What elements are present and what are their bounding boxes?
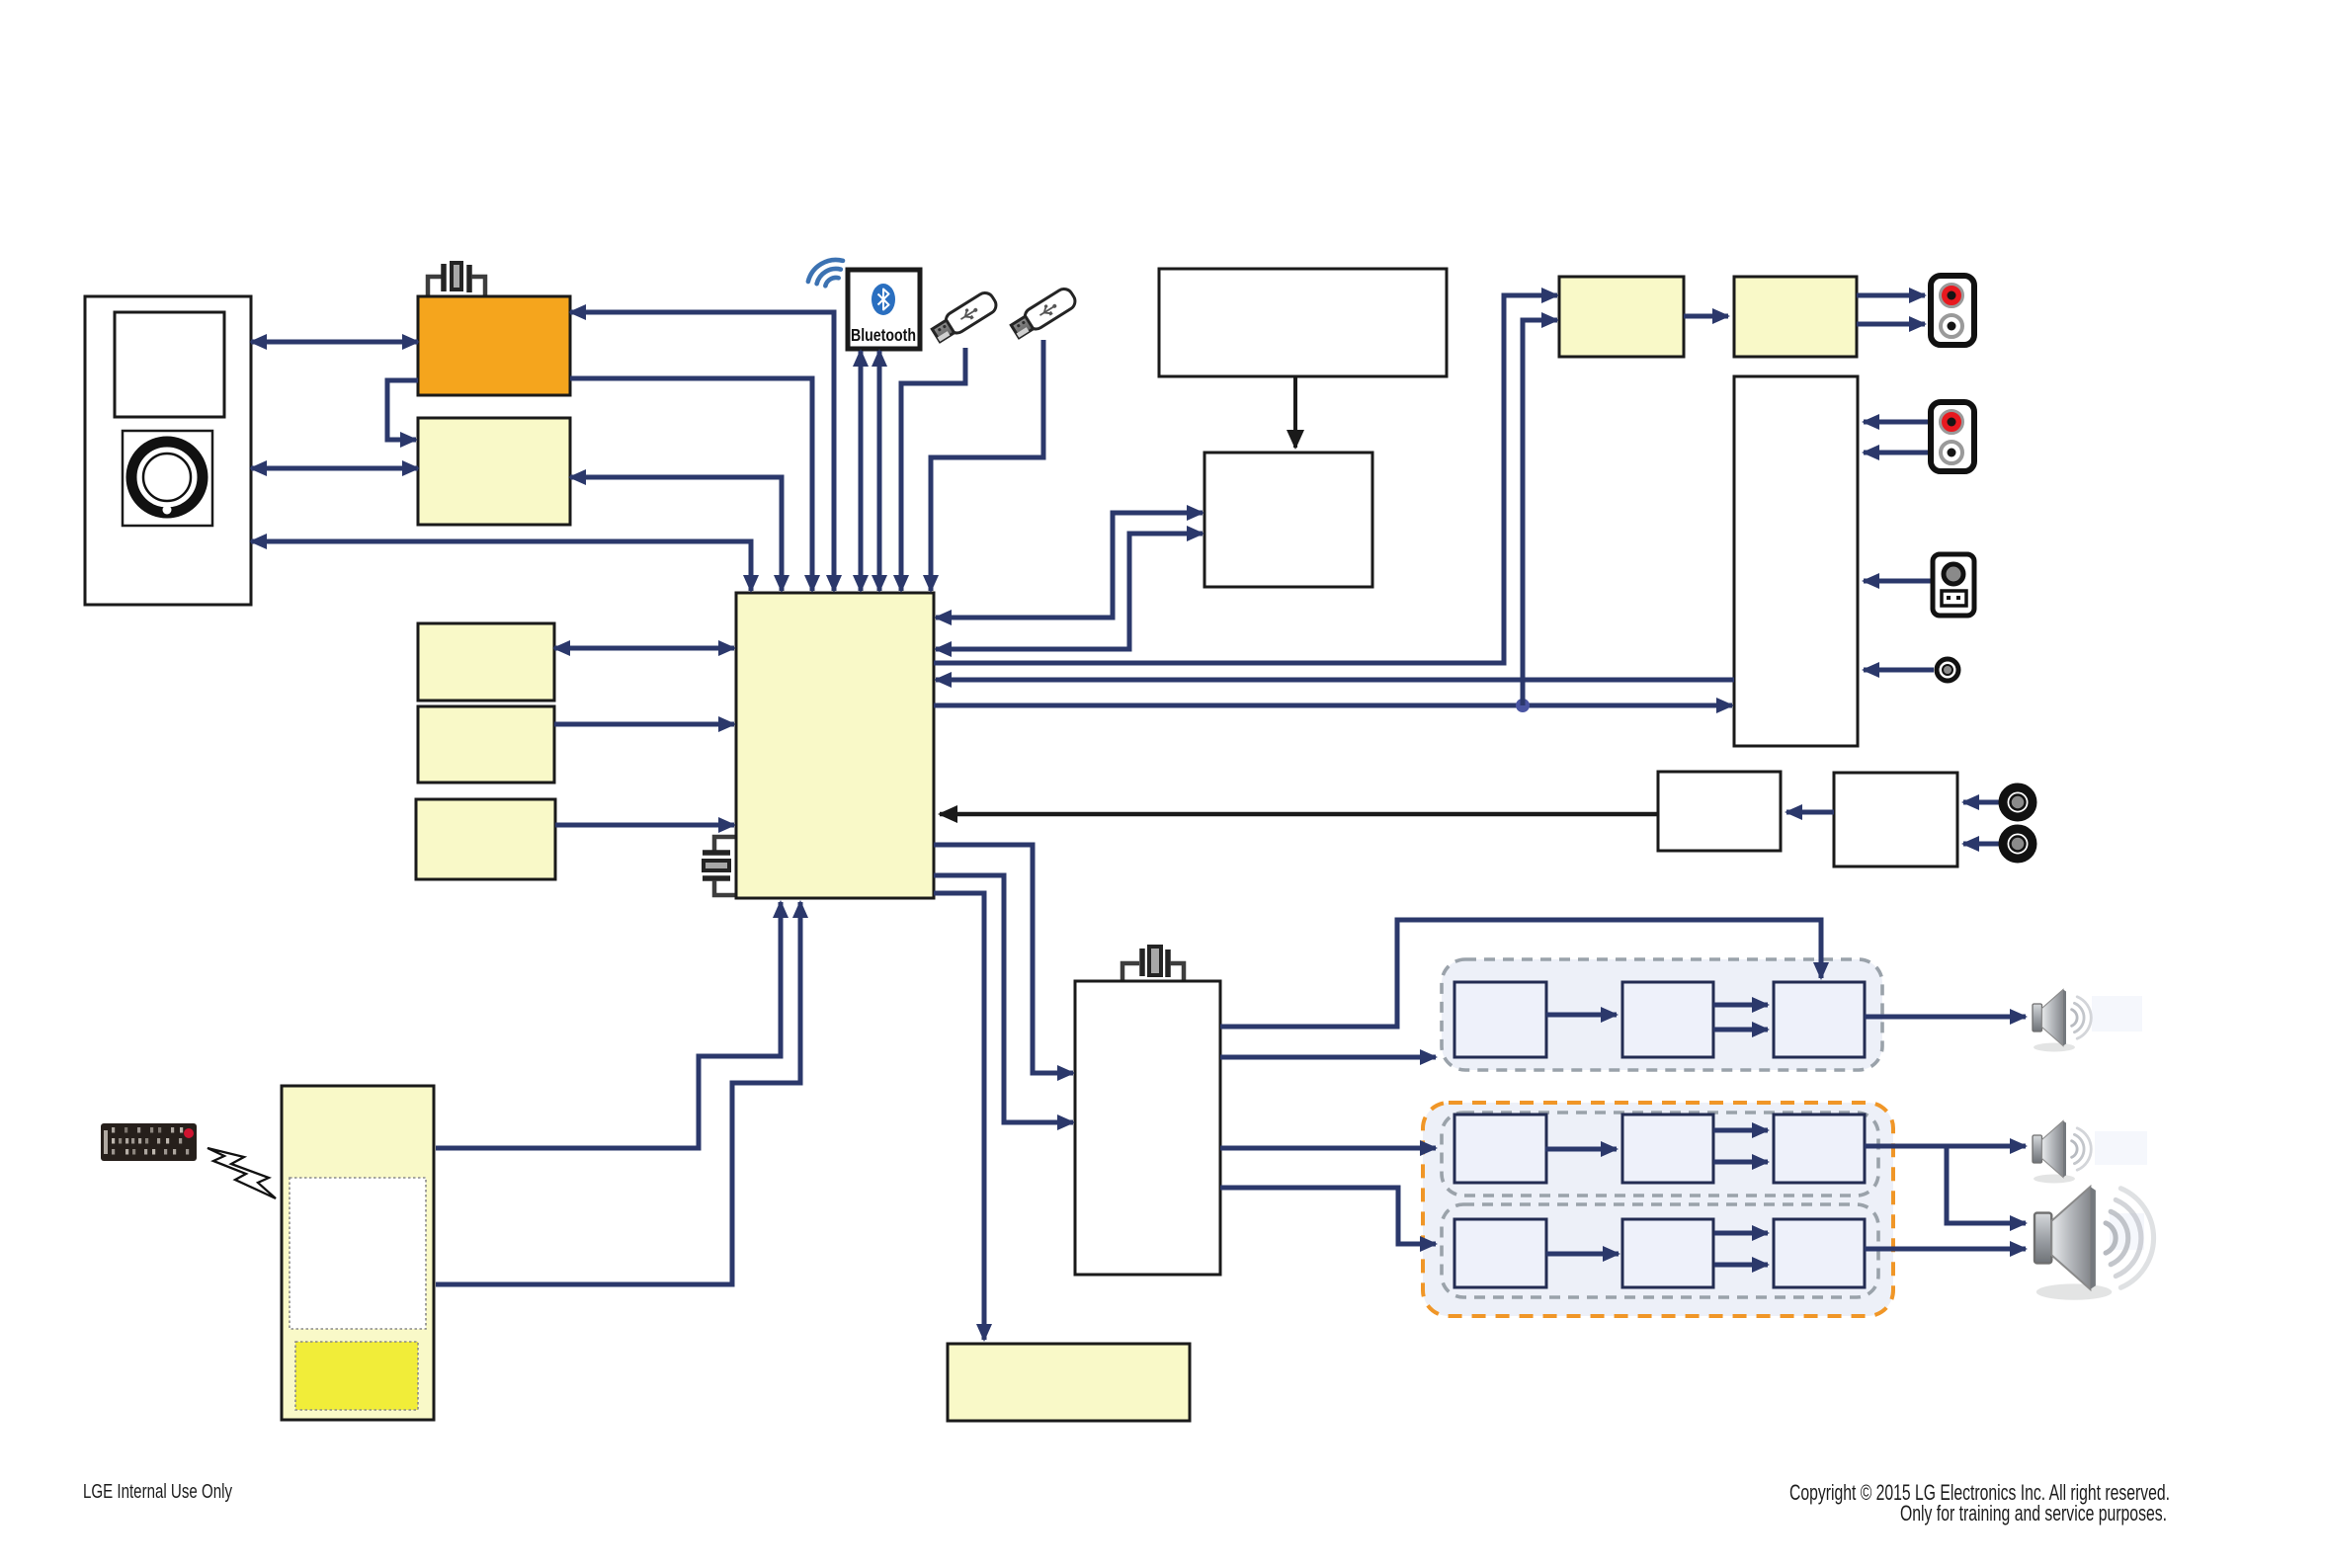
white box below (LCD driver) — [1204, 453, 1372, 587]
wire IC to LCD driver b — [936, 534, 1203, 649]
wire chain2 box2 to box3 (a) — [1713, 1128, 1768, 1133]
wire MICOM hook to flash — [387, 380, 418, 440]
wire Bluetooth link b — [877, 351, 882, 591]
wire RCA in L to tall block — [1864, 420, 1931, 425]
audio in/out tall block — [1734, 376, 1858, 746]
phones jack a — [2003, 787, 2033, 817]
ghost label rect speaker1 — [2092, 996, 2142, 1032]
ghost label rect woofer — [2110, 1213, 2144, 1250]
Bluetooth logo — [851, 284, 916, 345]
IR lightning bolt — [208, 1148, 276, 1198]
arrow display module to LCD driver — [1293, 376, 1297, 448]
wire panel-flash bidirectional — [251, 466, 418, 471]
amp block chain2 power stage — [1774, 1114, 1865, 1183]
wire USB1 to main IC — [901, 348, 965, 591]
wire chain2 to speaker2 with branch — [1865, 1144, 2026, 1149]
wire IC down to power supply — [934, 893, 984, 1340]
front panel display window — [115, 312, 224, 417]
wire left block1 to IC bidirectional — [554, 646, 734, 651]
wire USB2 to main IC — [931, 340, 1043, 591]
svg-text:Only for training and service: Only for training and service purposes. — [1900, 1501, 2167, 1526]
wire IR out to IC bottom b — [436, 902, 800, 1284]
wire left block3 to IC — [555, 823, 734, 828]
wire chain1 box2 to box3 (a) — [1713, 1003, 1768, 1008]
wire amp to chain1 input — [1220, 1055, 1436, 1060]
wire chain1 to speaker1 — [1865, 1015, 2026, 1020]
wire block B to RCA out L — [1857, 293, 1925, 298]
svg-text:Bluetooth: Bluetooth — [851, 325, 916, 345]
dashed chain group 3 — [1442, 1204, 1878, 1297]
wire block B to RCA out R — [1857, 322, 1925, 327]
wire IC down to amp in b — [934, 875, 1073, 1122]
wire phones jack a to block D — [1963, 800, 1999, 805]
wire block A to block B — [1684, 314, 1728, 319]
main IC (SoC) — [736, 593, 934, 898]
Bluetooth antenna arcs — [808, 254, 843, 289]
junction dot — [1516, 699, 1530, 712]
wire chain3 box2 to box3 (b) — [1714, 1263, 1768, 1268]
phones detect block D — [1834, 773, 1957, 867]
amp block chain2 driver — [1622, 1114, 1713, 1183]
USB memory stick 2 — [1009, 286, 1078, 340]
crystal X3 (above power amp) — [1122, 947, 1184, 980]
wire main IC to panel (long) — [251, 541, 751, 591]
wire IC to block A (upper) — [934, 295, 1557, 663]
speaker 1 (front) — [2033, 990, 2091, 1052]
wire IC to tall block with branch — [934, 703, 1732, 708]
left block 3 — [416, 799, 555, 879]
remote control — [101, 1123, 197, 1161]
IR inner white dotted area — [290, 1178, 426, 1329]
wire tall block to IC — [936, 678, 1734, 683]
wire chain2 box2 to box3 (b) — [1713, 1160, 1768, 1165]
IR inner bright yellow dotted area — [295, 1342, 418, 1410]
amp block chain2 filter — [1454, 1114, 1546, 1183]
crystal X1 (above MICOM) — [428, 263, 485, 295]
aux mini jack — [1937, 659, 1958, 681]
orange dashed group (stereo amp) — [1423, 1103, 1893, 1316]
wire Bluetooth link a — [859, 351, 864, 591]
wire branch junction to block A — [1523, 320, 1557, 705]
amp block chain3 driver — [1622, 1219, 1713, 1287]
wire BT/IC to MICOM — [570, 312, 834, 591]
svg-text:LGE Internal Use Only: LGE Internal Use Only — [83, 1480, 233, 1503]
wire chain3 box2 to box3 (a) — [1714, 1231, 1768, 1236]
output driver block B (yellow) — [1734, 277, 1857, 357]
MICOM block (orange) — [418, 296, 570, 395]
wire chain1 box1 to box2 — [1546, 1013, 1617, 1018]
wire chain3 box1 to box2 — [1546, 1252, 1619, 1257]
optical input connector — [1933, 554, 1974, 616]
wire branch chain2 to woofer — [1947, 1146, 2026, 1223]
phones jack b — [2003, 829, 2033, 859]
speaker 2 (front) — [2033, 1121, 2091, 1184]
output select block A (yellow) — [1559, 277, 1684, 357]
wire flash to main IC bidirectional — [570, 477, 782, 591]
wire left block2 to IC — [554, 722, 734, 727]
USB memory stick 1 — [930, 289, 999, 344]
wire chain2 box1 to box2 — [1545, 1147, 1617, 1152]
amp block chain3 filter — [1454, 1219, 1546, 1287]
RCA input jack pair — [1931, 402, 1974, 471]
power supply block (bottom yellow) — [948, 1344, 1190, 1421]
wire IC down to amp in a — [934, 845, 1073, 1073]
RCA output jack pair (top right) — [1931, 276, 1974, 345]
wire chain3 to woofer — [1865, 1247, 2026, 1252]
flash memory block — [418, 418, 570, 525]
left block 1 — [418, 623, 554, 701]
wire panel-MICOM bidirectional — [251, 340, 418, 345]
IR receiver / standby block — [282, 1086, 434, 1420]
wire IC to LCD driver a — [936, 513, 1203, 618]
amp block chain1 filter — [1454, 982, 1546, 1057]
amp block chain3 power stage — [1774, 1219, 1865, 1287]
wire aux jack to tall block — [1864, 668, 1934, 673]
wire chain1 box2 to box3 (b) — [1713, 1028, 1768, 1032]
front panel assembly — [85, 296, 251, 605]
wire amp to chain3 input — [1220, 1188, 1436, 1244]
wire IR out to IC bottom a — [436, 902, 781, 1148]
volume knob (jog dial) — [123, 431, 212, 526]
wire phones jack b to block D — [1963, 842, 1999, 847]
top white box (display module) — [1159, 269, 1447, 376]
ghost label rect speaker2 — [2095, 1131, 2147, 1165]
wire headphone amp C to IC (black) — [940, 812, 1658, 817]
wire RCA in R to tall block — [1864, 451, 1931, 455]
wire amp to chain2 input — [1220, 1146, 1436, 1151]
Bluetooth module box — [848, 270, 920, 349]
amp block chain1 power stage — [1774, 982, 1865, 1057]
wire amp to chain1 feedback top — [1220, 920, 1821, 1027]
wire MICOM out to main IC — [570, 378, 812, 591]
crystal X2 (left of main IC) — [703, 837, 736, 895]
wire block D to block C — [1786, 810, 1834, 815]
left block 2 — [418, 706, 554, 783]
speaker 3 (woofer) — [2034, 1187, 2154, 1300]
power amp driver block — [1075, 981, 1220, 1275]
dashed chain group 2 — [1442, 1113, 1878, 1196]
headphone amp block C — [1658, 772, 1781, 851]
dashed chain group 1 — [1442, 959, 1882, 1070]
wire optical in to tall block — [1864, 579, 1931, 584]
amp block chain1 driver — [1622, 982, 1713, 1057]
